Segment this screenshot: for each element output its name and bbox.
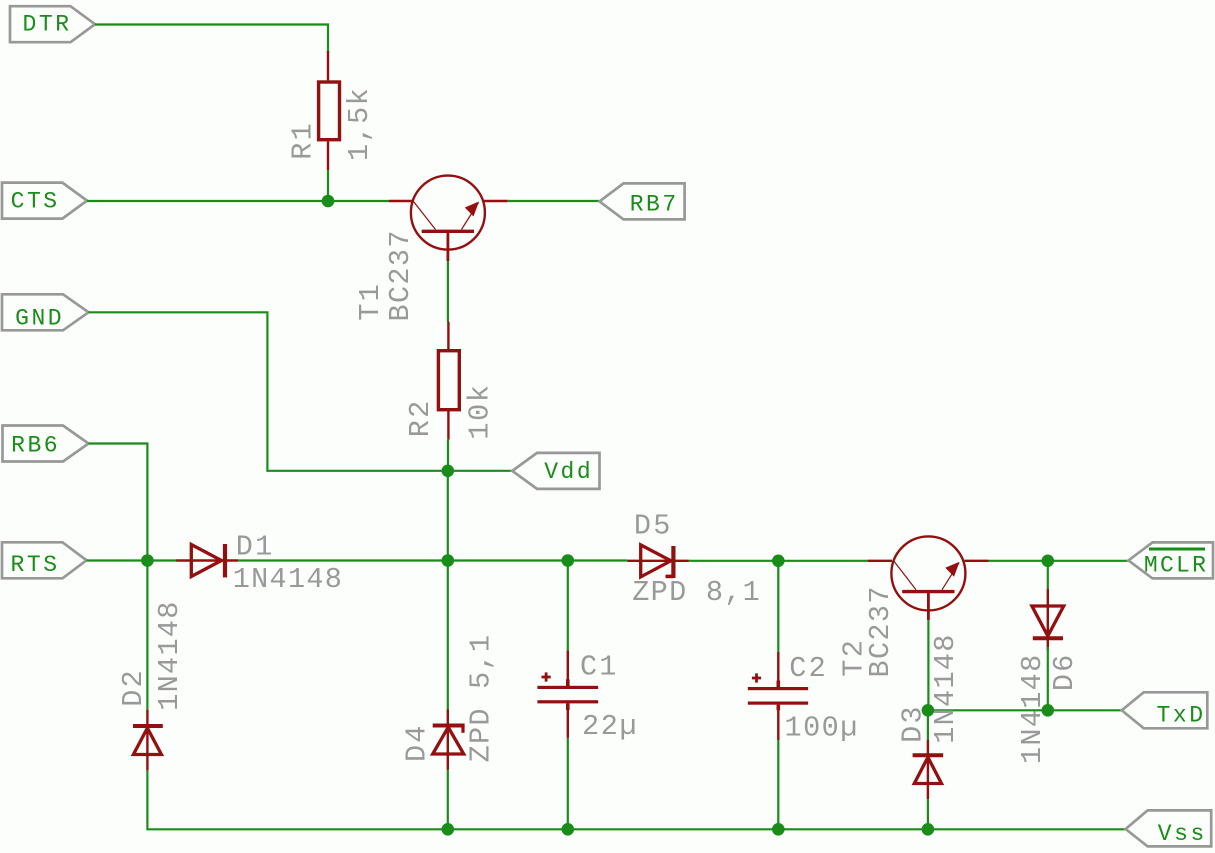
- svg-text:D4: D4: [401, 726, 434, 762]
- wire RB6 down to RTS line: [89, 444, 148, 561]
- flag MCLR: [1128, 542, 1213, 578]
- flag RB6: [3, 426, 89, 462]
- svg-text:T1: T1: [354, 284, 387, 320]
- svg-text:C1: C1: [580, 651, 616, 684]
- diode D4 zener: [433, 709, 465, 770]
- node C1 branch: [562, 554, 575, 567]
- wire T2 to MCLR: [989, 560, 1129, 562]
- svg-text:ZPD 5,1: ZPD 5,1: [465, 635, 498, 762]
- svg-text:Vss: Vss: [1158, 821, 1205, 847]
- svg-text:R2: R2: [404, 401, 437, 437]
- svg-text:BC237: BC237: [864, 587, 897, 678]
- svg-text:D2: D2: [117, 670, 150, 706]
- wire D5 to T2: [689, 560, 868, 562]
- flag RB7: [600, 183, 685, 219]
- diode D1: [176, 544, 238, 577]
- wire D4 branch down: [447, 561, 449, 710]
- svg-text:C2: C2: [789, 652, 825, 685]
- diode D2: [133, 710, 163, 771]
- diode D3: [913, 740, 944, 800]
- node D4 branch: [442, 554, 455, 567]
- wire T1 to RB7: [508, 200, 600, 202]
- wire R1 to CTS line: [327, 170, 329, 201]
- wire D4 to bottom: [447, 770, 449, 829]
- wire Vdd node to flag: [448, 470, 513, 472]
- MCLR overline: [1149, 548, 1205, 551]
- svg-text:DTR: DTR: [23, 12, 70, 38]
- svg-text:RB7: RB7: [630, 192, 677, 218]
- svg-text:ZPD 8,1: ZPD 8,1: [632, 576, 759, 609]
- wire D3 to bottom: [927, 799, 929, 829]
- wire CTS to T1 base: [87, 200, 389, 202]
- svg-text:22µ: 22µ: [582, 710, 637, 743]
- wire D2 branch down: [146, 561, 148, 710]
- node bottom D3: [922, 823, 935, 836]
- flag RTS: [2, 542, 87, 578]
- node junction R1/CTS: [322, 195, 335, 208]
- svg-text:1N4148: 1N4148: [153, 602, 186, 711]
- svg-text:100µ: 100µ: [785, 712, 858, 745]
- node Vdd junction: [442, 465, 455, 478]
- wire T2 emitter down: [927, 620, 929, 710]
- capacitor C2: [748, 652, 808, 740]
- node RTS/RB6 junction: [141, 554, 154, 567]
- node bottom C1: [562, 823, 575, 836]
- wire DTR to R1: [95, 25, 328, 53]
- resistor R1: [319, 51, 340, 170]
- flag Vss: [1126, 810, 1212, 846]
- flag TxD: [1122, 692, 1208, 728]
- wire TxD row: [928, 709, 1122, 711]
- svg-text:D6: D6: [1048, 655, 1081, 691]
- node bottom D4: [442, 823, 455, 836]
- transistor T1: [389, 176, 508, 262]
- transistor T2: [868, 536, 989, 620]
- svg-text:Vdd: Vdd: [544, 459, 591, 485]
- wire GND to Vdd node: [89, 312, 448, 471]
- svg-text:BC237: BC237: [384, 231, 417, 322]
- svg-text:CTS: CTS: [11, 188, 58, 214]
- svg-text:D5: D5: [634, 510, 670, 543]
- wire D6 branch down: [1047, 561, 1049, 589]
- svg-text:TxD: TxD: [1157, 703, 1204, 729]
- wire D2 to bottom corner: [147, 770, 1125, 829]
- resistor R2: [438, 322, 459, 440]
- flag Vdd: [512, 453, 599, 489]
- wire D3 branch down: [927, 710, 929, 739]
- node bottom C2: [772, 823, 785, 836]
- diode D6: [1032, 589, 1064, 650]
- node D6 branch: [1042, 555, 1055, 568]
- node T2/TxD junction: [922, 704, 935, 717]
- wire T1 emitter to R2: [447, 261, 449, 322]
- wire C1 to bottom: [567, 738, 569, 829]
- svg-text:D3: D3: [897, 707, 930, 743]
- diode D5 zener: [627, 545, 689, 578]
- flag CTS: [2, 183, 87, 219]
- capacitor C1: [537, 650, 598, 738]
- svg-text:GND: GND: [15, 306, 62, 332]
- wire RTS to D1: [87, 559, 178, 561]
- node C2 branch: [772, 555, 785, 568]
- svg-text:1N4148: 1N4148: [929, 635, 962, 744]
- wire R2 to Vdd node: [447, 440, 449, 471]
- svg-text:D1: D1: [236, 530, 272, 563]
- wire C1 branch down: [567, 561, 569, 651]
- svg-text:10k: 10k: [464, 385, 497, 440]
- svg-text:1,5k: 1,5k: [343, 88, 376, 161]
- svg-text:1N4148: 1N4148: [1016, 655, 1049, 764]
- svg-text:MCLR: MCLR: [1144, 553, 1206, 579]
- wire C2 to bottom: [777, 740, 779, 829]
- wire C2 branch down: [777, 561, 779, 652]
- wire Vdd node down to RTS line: [447, 471, 449, 561]
- svg-text:1N4148: 1N4148: [233, 563, 342, 596]
- wire D1 to D5: [238, 559, 627, 561]
- svg-text:RB6: RB6: [11, 433, 58, 459]
- wire D6 to TxD row: [1047, 647, 1049, 710]
- svg-text:R1: R1: [287, 123, 320, 159]
- node D6/TxD junction: [1042, 704, 1055, 717]
- flag GND: [2, 294, 89, 330]
- flag DTR: [10, 6, 95, 42]
- svg-text:RTS: RTS: [11, 552, 58, 578]
